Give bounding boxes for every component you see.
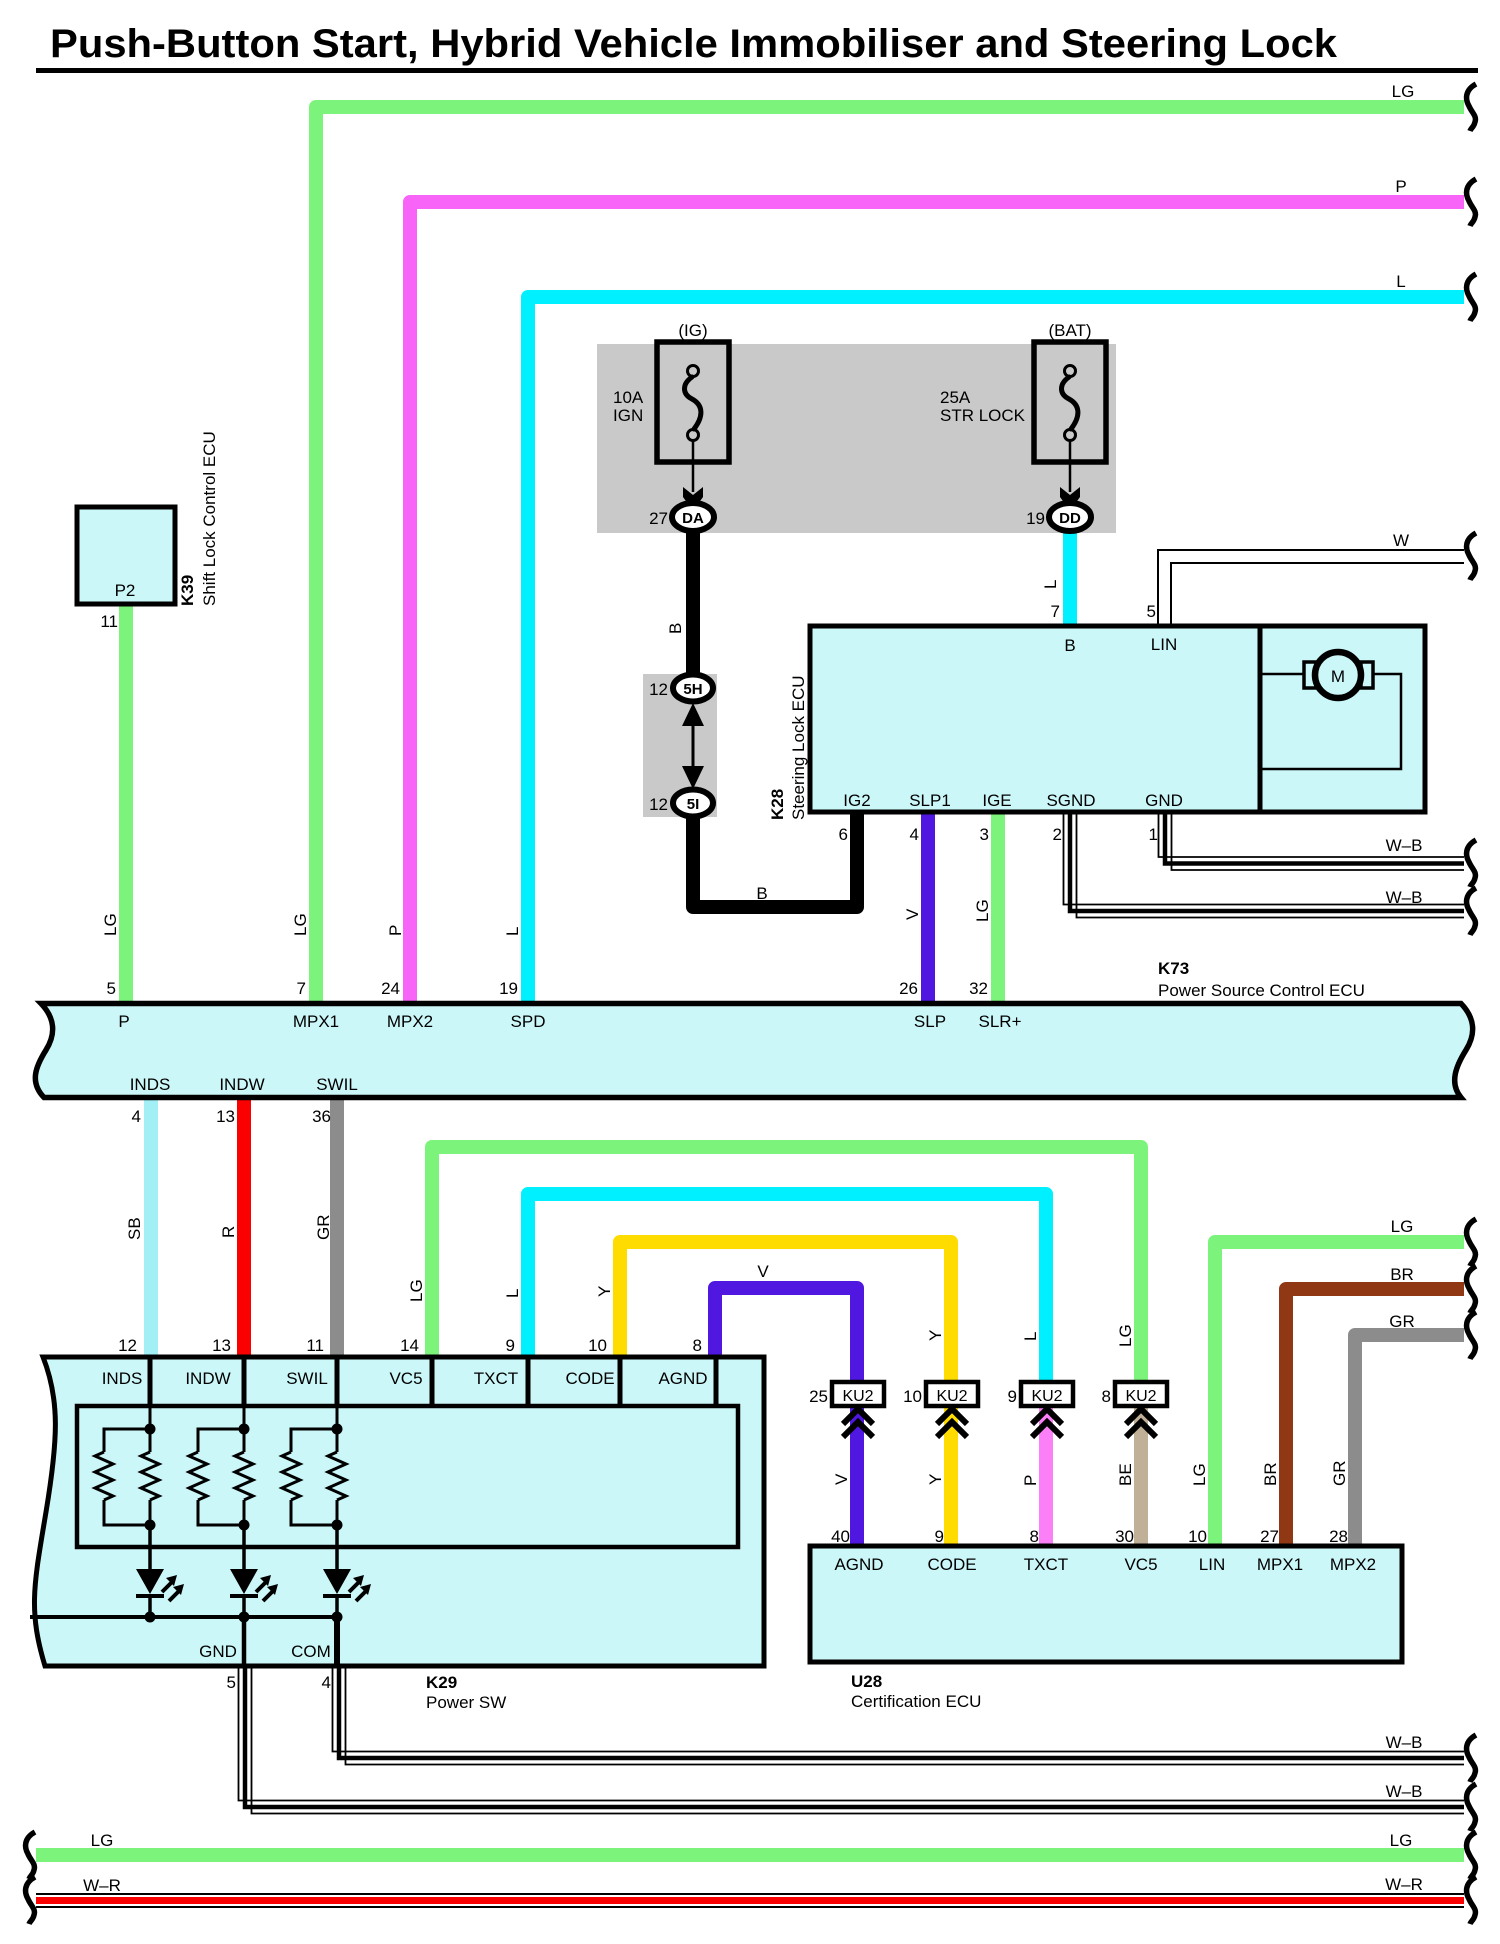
- svg-text:SGND: SGND: [1046, 791, 1095, 810]
- title underline: [36, 68, 1478, 73]
- switch K29 Power SW box: [34, 1357, 764, 1666]
- svg-text:L: L: [503, 927, 522, 936]
- connector KU2 (pin 8): [1115, 1382, 1167, 1437]
- wire Y (connector KU2 to U28 CODE pin 9): [944, 1404, 958, 1548]
- svg-text:11: 11: [100, 612, 118, 631]
- svg-text:36: 36: [312, 1107, 331, 1126]
- LED D1 (K29 internal): [136, 1525, 184, 1617]
- svg-text:GR: GR: [1330, 1461, 1349, 1487]
- wire L (K73 SPD pin 19 to right edge): [528, 297, 1464, 1001]
- svg-text:W–B: W–B: [1386, 888, 1423, 907]
- connector block 5H/5I (gray background): [643, 674, 717, 817]
- svg-text:KU2: KU2: [1031, 1388, 1062, 1405]
- svg-text:W–B: W–B: [1386, 1782, 1423, 1801]
- svg-text:LG: LG: [291, 913, 310, 936]
- svg-text:K73: K73: [1158, 959, 1189, 978]
- wire LG (K73 MPX1 pin 7 to right edge): [316, 107, 1464, 1001]
- svg-text:4: 4: [132, 1107, 141, 1126]
- svg-text:40: 40: [831, 1527, 850, 1546]
- svg-text:STR LOCK: STR LOCK: [940, 406, 1026, 425]
- wire W-B (K28 GND pin 1 to right edge): [1159, 812, 1465, 870]
- svg-text:W–B: W–B: [1386, 1733, 1423, 1752]
- svg-text:IGN: IGN: [613, 406, 643, 425]
- svg-text:W–R: W–R: [83, 1876, 121, 1895]
- svg-text:MPX2: MPX2: [1330, 1555, 1376, 1574]
- svg-text:INDS: INDS: [102, 1369, 143, 1388]
- svg-text:B: B: [666, 623, 685, 634]
- svg-text:DA: DA: [682, 510, 704, 527]
- svg-text:SWIL: SWIL: [316, 1075, 358, 1094]
- wire LG (P2 pin 11 to K73 P pin 5): [119, 604, 133, 1001]
- svg-text:L: L: [503, 1289, 522, 1298]
- svg-text:COM: COM: [291, 1642, 331, 1661]
- svg-text:28: 28: [1329, 1527, 1348, 1546]
- svg-text:IGE: IGE: [982, 791, 1011, 810]
- svg-text:Y: Y: [595, 1286, 614, 1297]
- K28 internal partition: [1258, 626, 1263, 812]
- svg-text:SB: SB: [125, 1217, 144, 1240]
- svg-text:26: 26: [899, 979, 918, 998]
- svg-text:25: 25: [809, 1387, 828, 1406]
- svg-text:SWIL: SWIL: [286, 1369, 328, 1388]
- svg-text:V: V: [757, 1262, 769, 1281]
- svg-text:32: 32: [969, 979, 988, 998]
- svg-text:Push-Button Start, Hybrid Vehi: Push-Button Start, Hybrid Vehicle Immobi…: [50, 22, 1338, 66]
- svg-text:K28: K28: [768, 789, 787, 820]
- svg-text:Y: Y: [926, 1474, 945, 1485]
- connector KU2 (pin 10): [926, 1382, 978, 1437]
- svg-text:TXCT: TXCT: [474, 1369, 518, 1388]
- svg-text:INDW: INDW: [185, 1369, 230, 1388]
- svg-text:6: 6: [839, 825, 848, 844]
- svg-text:K39: K39: [178, 575, 197, 606]
- svg-text:27: 27: [1260, 1527, 1279, 1546]
- svg-text:W–B: W–B: [1386, 836, 1423, 855]
- svg-text:MPX1: MPX1: [1257, 1555, 1303, 1574]
- arrow from fuse IGN to connector: [692, 441, 695, 492]
- node (D1 cathode to bus): [145, 1612, 156, 1623]
- svg-text:19: 19: [1026, 509, 1045, 528]
- wire L (K29 TXCT pin 9 to connector KU2 pin 9): [528, 1194, 1046, 1384]
- svg-text:CODE: CODE: [927, 1555, 976, 1574]
- wire BR (U28 MPX1 pin 27 to right edge): [1286, 1289, 1464, 1548]
- svg-text:5I: 5I: [687, 796, 700, 813]
- svg-text:R: R: [219, 1226, 238, 1238]
- svg-text:10: 10: [588, 1336, 607, 1355]
- svg-text:9: 9: [935, 1527, 944, 1546]
- wire LG (K29 VC5 pin 14 to connector KU2 pin 8): [432, 1147, 1141, 1384]
- svg-text:P2: P2: [115, 581, 136, 600]
- svg-text:11: 11: [306, 1336, 324, 1355]
- svg-text:30: 30: [1115, 1527, 1134, 1546]
- svg-text:8: 8: [693, 1336, 702, 1355]
- node (D2 cathode / GND): [239, 1612, 250, 1623]
- svg-text:13: 13: [212, 1336, 231, 1355]
- svg-text:7: 7: [297, 979, 306, 998]
- svg-text:1: 1: [1149, 825, 1158, 844]
- svg-text:27: 27: [649, 509, 668, 528]
- svg-text:GND: GND: [199, 1642, 237, 1661]
- wire (bus to K29 COM pin 4): [334, 1617, 340, 1664]
- wire W-B (K28 SGND pin 2 to right edge): [1064, 812, 1465, 918]
- wire V (K29 AGND pin 8 to connector KU2 pin 25): [715, 1288, 857, 1384]
- svg-text:V: V: [832, 1473, 851, 1485]
- svg-text:5: 5: [227, 1673, 236, 1692]
- svg-text:LG: LG: [1390, 1831, 1413, 1850]
- fuse 10A IGN: [657, 342, 729, 462]
- svg-text:K29: K29: [426, 1673, 457, 1692]
- svg-text:GND: GND: [1145, 791, 1183, 810]
- connector 5H: [673, 675, 713, 702]
- wire break symbol: [26, 1877, 35, 1924]
- wire V (K28 SLP1 pin 4 to K73 SLP pin 26): [921, 810, 935, 1001]
- wire break symbol: [1467, 840, 1476, 887]
- wire break symbol: [1467, 274, 1476, 321]
- svg-text:(BAT): (BAT): [1048, 321, 1091, 340]
- svg-text:Steering Lock ECU: Steering Lock ECU: [789, 675, 808, 820]
- wire LG (U28 LIN pin 10 to right edge): [1215, 1242, 1464, 1548]
- fuse 25A STR LOCK: [1034, 342, 1106, 462]
- svg-text:13: 13: [216, 1107, 235, 1126]
- wire W-B (K29 COM pin 4 to right edge): [333, 1664, 1465, 1765]
- ECU P2 (K39 Shift Lock Control ECU) box: [77, 507, 175, 604]
- arrows between 5H and 5I: [692, 714, 695, 779]
- svg-text:BR: BR: [1390, 1265, 1414, 1284]
- connector KU2 (pin 9): [1021, 1382, 1073, 1437]
- svg-text:P: P: [118, 1012, 129, 1031]
- svg-text:9: 9: [1008, 1387, 1017, 1406]
- svg-text:L: L: [1021, 1332, 1040, 1341]
- LED D3 (K29 internal): [323, 1525, 371, 1617]
- wire W-R (bottom bus, left edge to right edge): [36, 1894, 1464, 1907]
- svg-text:Power Source Control ECU: Power Source Control ECU: [1158, 981, 1365, 1000]
- K28 motor circuit wiring: [1262, 674, 1401, 769]
- wire break symbol: [1467, 1312, 1476, 1359]
- wire W-B (K29 GND pin 5 to right edge): [239, 1664, 1465, 1814]
- svg-text:4: 4: [322, 1673, 331, 1692]
- fuse block (gray background): [597, 344, 1116, 533]
- resistor pair R1 (K29 internal): [104, 1359, 150, 1525]
- svg-text:LG: LG: [1391, 1217, 1414, 1236]
- svg-text:KU2: KU2: [1125, 1388, 1156, 1405]
- wire B (connector 5I to K28 IG2 pin 6): [693, 803, 857, 907]
- wire GR (U28 MPX2 pin 28 to right edge): [1355, 1335, 1464, 1548]
- resistor pair R3 (K29 internal): [291, 1359, 337, 1525]
- ECU K28 Steering Lock ECU box: [810, 626, 1425, 812]
- svg-text:MPX1: MPX1: [293, 1012, 339, 1031]
- svg-text:MPX2: MPX2: [387, 1012, 433, 1031]
- svg-text:LG: LG: [101, 913, 120, 936]
- connector 5I: [673, 790, 713, 817]
- svg-text:SLP: SLP: [914, 1012, 946, 1031]
- svg-text:LG: LG: [1116, 1324, 1135, 1347]
- svg-text:INDW: INDW: [219, 1075, 264, 1094]
- svg-text:8: 8: [1030, 1527, 1039, 1546]
- svg-text:SLR+: SLR+: [979, 1012, 1022, 1031]
- svg-text:BR: BR: [1261, 1462, 1280, 1486]
- wire W (K28 LIN pin 5 to right edge): [1158, 550, 1464, 626]
- node (top of R2): [239, 1424, 250, 1435]
- svg-text:LG: LG: [1190, 1463, 1209, 1486]
- connector DA: [672, 503, 714, 531]
- svg-text:(IG): (IG): [678, 321, 707, 340]
- svg-text:B: B: [1064, 636, 1075, 655]
- node (bottom of R2): [239, 1520, 250, 1531]
- wire break symbol: [1467, 1266, 1476, 1313]
- svg-text:W: W: [1393, 531, 1409, 550]
- svg-text:P: P: [1395, 177, 1406, 196]
- wire GR (K73 SWIL pin 36 to K29 SWIL pin 11): [330, 1100, 344, 1360]
- svg-text:IG2: IG2: [843, 791, 870, 810]
- svg-text:24: 24: [381, 979, 400, 998]
- svg-text:P: P: [386, 925, 405, 936]
- wire break symbol: [1467, 1784, 1476, 1831]
- svg-text:2: 2: [1053, 825, 1062, 844]
- svg-text:12: 12: [118, 1336, 137, 1355]
- svg-text:INDS: INDS: [130, 1075, 171, 1094]
- svg-text:5H: 5H: [683, 681, 702, 698]
- node (D3 cathode / COM): [332, 1612, 343, 1623]
- svg-text:GR: GR: [1389, 1312, 1415, 1331]
- svg-text:Certification ECU: Certification ECU: [851, 1692, 981, 1711]
- svg-text:M: M: [1331, 667, 1345, 686]
- svg-text:CODE: CODE: [565, 1369, 614, 1388]
- connector DD: [1049, 503, 1091, 531]
- svg-text:4: 4: [910, 825, 919, 844]
- wire L (connector DD to K28 B pin 7): [1063, 525, 1077, 628]
- svg-text:LG: LG: [91, 1831, 114, 1850]
- LED D2 (K29 internal): [230, 1525, 278, 1617]
- svg-text:LIN: LIN: [1199, 1555, 1225, 1574]
- wire break symbol: [1467, 533, 1476, 580]
- connector KU2 (pin 25): [832, 1382, 884, 1437]
- svg-text:B: B: [756, 884, 767, 903]
- svg-text:19: 19: [499, 979, 518, 998]
- wire break symbol: [1467, 1832, 1476, 1879]
- svg-text:TXCT: TXCT: [1024, 1555, 1068, 1574]
- svg-text:VC5: VC5: [389, 1369, 422, 1388]
- wire break symbol: [1467, 888, 1476, 935]
- svg-text:DD: DD: [1059, 510, 1081, 527]
- svg-text:10: 10: [903, 1387, 922, 1406]
- svg-text:V: V: [903, 908, 922, 920]
- wire break symbol: [26, 1832, 35, 1879]
- wire break symbol: [1467, 1735, 1476, 1782]
- svg-text:12: 12: [649, 680, 668, 699]
- svg-text:Y: Y: [926, 1330, 945, 1341]
- svg-text:12: 12: [649, 795, 668, 814]
- svg-text:SPD: SPD: [511, 1012, 546, 1031]
- wire LG (K28 IGE pin 3 to K73 SLR+ pin 32): [991, 810, 1005, 1001]
- svg-text:SLP1: SLP1: [909, 791, 951, 810]
- resistor pair R2 (K29 internal): [198, 1359, 244, 1525]
- svg-text:LG: LG: [973, 899, 992, 922]
- svg-text:9: 9: [506, 1336, 515, 1355]
- K29 inner circuit box: [77, 1406, 738, 1547]
- svg-text:AGND: AGND: [658, 1369, 707, 1388]
- wire P (connector KU2 to U28 TXCT pin 8): [1039, 1404, 1053, 1548]
- svg-text:W–R: W–R: [1385, 1875, 1423, 1894]
- ECU U28 Certification ECU box: [810, 1546, 1402, 1662]
- svg-text:VC5: VC5: [1124, 1555, 1157, 1574]
- svg-text:3: 3: [980, 825, 989, 844]
- wire R (K73 INDW pin 13 to K29 INDW pin 13): [237, 1100, 251, 1360]
- svg-text:LIN: LIN: [1151, 635, 1177, 654]
- svg-text:BE: BE: [1116, 1463, 1135, 1486]
- wire Y (K29 CODE pin 10 to connector KU2 pin 10): [620, 1242, 951, 1384]
- wire break symbol: [1467, 1877, 1476, 1924]
- svg-text:7: 7: [1051, 602, 1060, 621]
- svg-text:5: 5: [1147, 602, 1156, 621]
- wire break symbol: [1467, 179, 1476, 226]
- svg-text:LG: LG: [1392, 82, 1415, 101]
- node (top of R3): [332, 1424, 343, 1435]
- wire BE (connector KU2 to U28 VC5 pin 30): [1134, 1404, 1148, 1548]
- wire (bus to K29 GND pin 5): [242, 1617, 247, 1664]
- wire LG (bottom bus, left edge to right edge): [36, 1848, 1464, 1862]
- svg-text:Power SW: Power SW: [426, 1693, 506, 1712]
- svg-text:14: 14: [400, 1336, 419, 1355]
- motor M: [1304, 652, 1373, 698]
- svg-text:P: P: [1021, 1475, 1040, 1486]
- svg-text:KU2: KU2: [842, 1388, 873, 1405]
- wire break symbol: [1467, 1219, 1476, 1266]
- wire P (K73 MPX2 pin 24 to right edge): [410, 202, 1464, 1001]
- ECU K73 Power Source Control ECU bar: [35, 1004, 1472, 1098]
- svg-text:GR: GR: [314, 1215, 333, 1241]
- svg-text:U28: U28: [851, 1672, 882, 1691]
- arrow from fuse STR LOCK to connector: [1069, 441, 1072, 492]
- svg-text:L: L: [1396, 272, 1405, 291]
- node (bottom of R3): [332, 1520, 343, 1531]
- wire break symbol: [1467, 84, 1476, 131]
- K29 pin cell dividers: [150, 1359, 716, 1406]
- svg-text:5: 5: [107, 979, 116, 998]
- svg-text:AGND: AGND: [834, 1555, 883, 1574]
- K29 internal ground bus: [30, 1615, 337, 1619]
- svg-text:10: 10: [1188, 1527, 1207, 1546]
- svg-text:8: 8: [1102, 1387, 1111, 1406]
- wire V (connector KU2 to U28 AGND pin 40): [850, 1404, 864, 1548]
- node (bottom of R1): [145, 1520, 156, 1531]
- svg-text:KU2: KU2: [936, 1388, 967, 1405]
- svg-text:25A: 25A: [940, 388, 971, 407]
- wire SB (K73 INDS pin 4 to K29 INDS pin 12): [144, 1100, 158, 1360]
- svg-text:L: L: [1041, 580, 1060, 589]
- svg-text:Shift Lock Control ECU: Shift Lock Control ECU: [200, 431, 219, 606]
- svg-text:10A: 10A: [613, 388, 644, 407]
- wire B (connector DA to connector 5H): [686, 517, 700, 688]
- svg-text:LG: LG: [407, 1279, 426, 1302]
- node (top of R1): [145, 1424, 156, 1435]
